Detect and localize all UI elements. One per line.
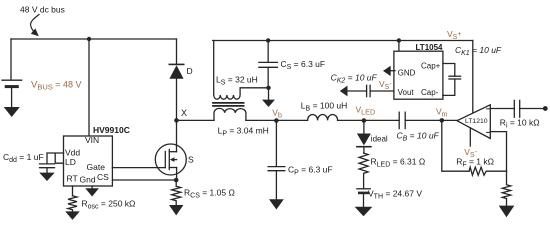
node: rail to VIN junction [87,37,91,41]
svg-text:X: X [181,108,187,118]
ground (Cdd) [39,173,54,181]
node Vb [274,118,279,123]
transformer core [213,103,244,106]
svg-text:VS-: VS- [379,79,392,91]
svg-text:RT: RT [67,174,78,184]
wire: rail to Cs [267,41,269,63]
battery VTH [357,189,370,207]
wire: Cb to Vm [405,119,442,121]
battery VBUS [2,80,22,107]
svg-text:CS: CS [97,172,109,182]
svg-text:Cap-: Cap- [421,88,439,97]
net arrow to Vb [262,88,275,107]
svg-text:CS = 6.3 uF: CS = 6.3 uF [281,59,326,71]
wire: junction to Rcs [175,180,177,186]
wire: Vm to op-amp output [442,119,457,121]
svg-text:Cap+: Cap+ [421,62,441,71]
wire: RT pin to Rosc [72,186,74,196]
svg-text:RLED = 6.31 Ω: RLED = 6.31 Ω [371,157,426,169]
svg-text:LB = 100 uH: LB = 100 uH [301,101,348,113]
svg-text:Vout: Vout [398,88,415,97]
svg-text:VS+: VS+ [447,29,461,41]
svg-text:S: S [188,155,194,165]
capacitor Cb [399,112,405,128]
wire: Ci to input terminal [520,108,546,110]
svg-text:Gnd: Gnd [80,175,96,185]
ground (Cp) [269,199,284,209]
svg-text:LT1054: LT1054 [416,43,444,52]
wire: VIN drop [88,39,90,136]
resistor RLED [359,153,368,189]
svg-text:48 V dc bus: 48 V dc bus [20,4,65,14]
resistor Rosc [68,196,77,212]
IC U2 LT1054 box [394,51,443,99]
svg-text:LS = 32 uH: LS = 32 uH [216,75,258,87]
svg-text:CK2 = 10 uF: CK2 = 10 uF [331,73,378,85]
svg-text:CB = 10 uF: CB = 10 uF [397,131,440,143]
svg-text:Cdd = 1 uF: Cdd = 1 uF [3,152,44,164]
wire: Lb to VLED [338,119,364,121]
ground (Rg) [499,206,515,218]
node VLED [362,118,367,123]
wire: Gate pin to MOSFET gate [112,167,165,169]
capacitor Ck2 [367,85,371,96]
ground (Rosc) [65,211,80,220]
svg-text:HV9910C: HV9910C [93,125,130,135]
ground (battery VBUS) [4,107,20,117]
svg-text:CK1 = 10 uF: CK1 = 10 uF [455,45,502,57]
wire: VS+ drop to op-amp [472,41,474,114]
capacitor Cs [259,62,278,87]
svg-text:ideal: ideal [371,135,388,144]
svg-text:RCS = 1.05 Ω: RCS = 1.05 Ω [184,188,235,200]
wire: VLED down to LED [363,121,365,134]
svg-text:VIN: VIN [85,135,99,145]
wire: Lp to Vb to Lb [246,119,308,121]
svg-text:LT1210: LT1210 [465,118,488,125]
wire: left drop to battery [10,39,12,79]
capacitor Cdd wiring bracket (Vdd/LD pins) [47,153,64,164]
node Vm [440,118,445,123]
transistor Q1 MOSFET [155,144,186,180]
svg-text:Rosc = 250 kΩ: Rosc = 250 kΩ [82,198,136,210]
svg-text:VTH = 24.67 V: VTH = 24.67 V [368,189,422,201]
node: input terminal [543,106,548,111]
wire: rail to LT1054 V+ [398,41,400,52]
op-amp U3 LT1210 [457,105,490,139]
wire: CS pin to source junction [112,179,176,181]
svg-text:GND: GND [398,69,416,78]
wire: node X to Lp [177,119,215,121]
diode D [169,64,183,78]
ground (Gnd pin) [85,186,99,197]
capacitor Cdd [40,164,55,173]
net arrow at Ck2 [340,86,348,97]
node: Ls/Cs junction [266,86,270,90]
svg-text:Gate: Gate [87,162,106,172]
ground (VTH) [355,207,373,217]
wire: VS+ second rail [213,40,473,42]
capacitor Cp [268,121,285,200]
node: rail to Cs junction [266,38,270,42]
svg-text:Vm: Vm [436,107,448,119]
node: rail to LT1054 [397,38,401,42]
wire: op-amp -input [490,132,506,172]
net arrow at GND pin [383,66,395,76]
wire: Ck2 to net arrow [348,90,367,92]
wire: VS- stub [469,128,471,146]
svg-text:LP = 3.04 mH: LP = 3.04 mH [218,126,269,138]
svg-text:CP = 6.3 uF: CP = 6.3 uF [288,165,333,177]
svg-text:VBUS = 48 V: VBUS = 48 V [31,80,82,92]
wire: rail to diode cathode [176,39,178,64]
wire: diode anode down through node X to MOSFET drain [176,79,178,152]
resistor RF [469,167,506,175]
node X [174,118,179,123]
wire: second rail drop to Ls [213,41,215,96]
inductor Lp (transformer primary) [214,108,246,120]
wire: main top rail [11,38,177,40]
resistor Rg [502,171,510,205]
capacitor Ck1 [449,76,461,79]
svg-text:Ri = 10 kΩ: Ri = 10 kΩ [500,118,540,130]
wire: Vm feedback drop [442,120,469,171]
resistor Rcs [172,186,181,205]
inductor Lb [308,115,338,121]
wire: VLED to Cb [364,119,399,121]
IC U1 HV9910C box [64,136,113,186]
LED (ideal) [357,134,371,154]
ground (Rcs) [169,205,183,215]
inductor Ls (transformer secondary) [214,88,269,99]
annotation arrow (48 V dc bus) [31,15,39,37]
wire: op-amp +input [490,108,514,110]
capacitor Ci (input) [514,100,519,117]
capacitor Ck1 bracket [443,64,455,96]
svg-text:VLED: VLED [356,105,376,117]
svg-text:D: D [187,66,193,76]
svg-text:Vb: Vb [272,108,282,120]
node: CS junction [174,178,179,183]
wire: Vout pin to Ck2 [370,90,394,92]
svg-text:LD: LD [65,157,76,167]
